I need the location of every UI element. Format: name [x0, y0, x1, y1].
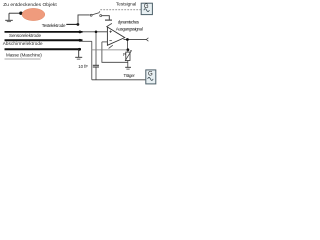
- svg-text:P: P: [123, 52, 126, 57]
- svg-text:Testelektrode: Testelektrode: [42, 23, 66, 28]
- svg-text:Zu entdeckendes Objekt: Zu entdeckendes Objekt: [3, 2, 57, 8]
- svg-text:G: G: [148, 71, 153, 77]
- svg-text:Masse (Maschine): Masse (Maschine): [6, 53, 42, 58]
- svg-text:Abschirmelektrode: Abschirmelektrode: [3, 41, 43, 46]
- svg-text:Sensorelektrode: Sensorelektrode: [9, 33, 41, 38]
- svg-text:Ausgangssignal: Ausgangssignal: [116, 27, 143, 32]
- svg-text:Träger: Träger: [124, 73, 136, 78]
- svg-text:dynamisches: dynamisches: [118, 20, 140, 25]
- svg-text:10 fF: 10 fF: [78, 64, 88, 69]
- svg-text:Testsignal: Testsignal: [116, 2, 136, 7]
